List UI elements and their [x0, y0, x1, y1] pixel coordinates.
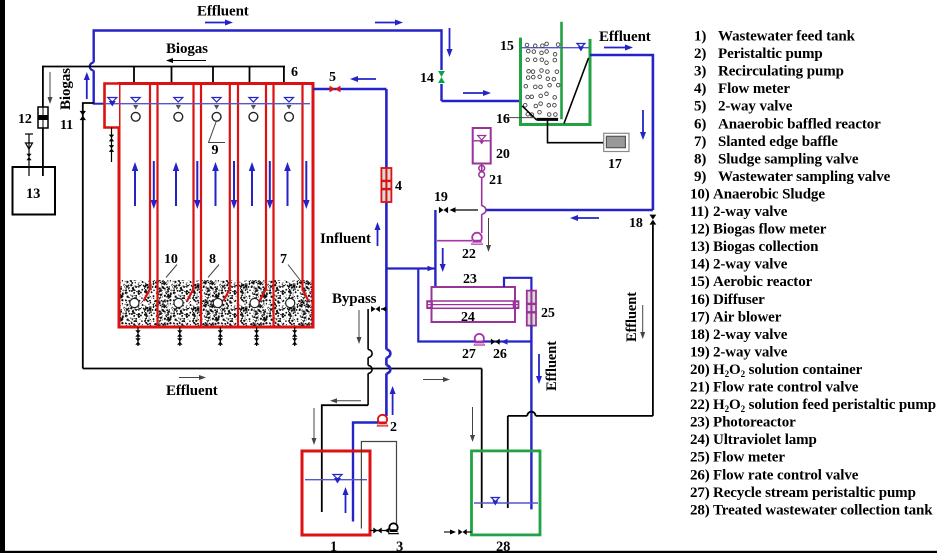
- H2O2 solution container 20: [473, 128, 491, 164]
- hopper diagonal: [522, 106, 536, 120]
- svg-text:9: 9: [212, 143, 219, 158]
- flow arrow down (beside pump 22): [488, 218, 490, 245]
- sludge sampling valve 4: [256, 327, 258, 346]
- svg-text:10: 10: [164, 252, 178, 267]
- svg-text:Slanted edge baffle: Slanted edge baffle: [718, 134, 838, 150]
- flow arrow down (biogas left): [49, 72, 51, 97]
- svg-text:1): 1): [694, 29, 706, 45]
- wire ABR inlet from valve 5: [313, 88, 386, 90]
- svg-text:28: 28: [496, 539, 510, 553]
- svg-text:Treated wastewater collection: Treated wastewater collection tank: [713, 502, 933, 518]
- wire diffuser to blower: [548, 121, 604, 143]
- flow arrow down (right): [642, 305, 644, 332]
- slanted edge baffle 4: [260, 84, 267, 302]
- flow arrow right (to photoreactor): [420, 268, 428, 270]
- svg-text:25): 25): [690, 450, 710, 466]
- svg-text:11: 11: [60, 118, 73, 133]
- level mark compartment 4: [249, 98, 258, 103]
- influent level mark (inlet box): [108, 98, 117, 103]
- flow arrow up (ABR effluent): [86, 80, 88, 99]
- downflow arrow compartment 4: [269, 161, 271, 200]
- downflow arrow compartment 5: [305, 161, 307, 200]
- flow rate control valve 21: [479, 165, 485, 171]
- svg-text:14): 14): [690, 257, 710, 273]
- flow arrow right (into aerobic): [463, 92, 483, 94]
- aerobic level mark: [577, 44, 585, 48]
- anaerobic baffled reactor 6 body: [119, 84, 313, 328]
- recirculating pump 3: [389, 523, 397, 531]
- tank 1 water line: [305, 479, 367, 481]
- pump 3 suction valve: [370, 530, 388, 532]
- svg-text:Flow meter: Flow meter: [713, 450, 785, 466]
- wire valve19 drop to photoreactor: [434, 210, 436, 287]
- flow arrow up (tank 1): [345, 495, 347, 513]
- svg-text:Wastewater feed tank: Wastewater feed tank: [718, 29, 856, 45]
- svg-text:12: 12: [18, 112, 32, 127]
- level mark compartment 2: [174, 98, 183, 103]
- wastewater sampling valve circle 4: [249, 112, 258, 121]
- valve 19 2-way: [439, 207, 444, 213]
- flow rate control valve 26: [491, 339, 495, 345]
- svg-text:3): 3): [694, 64, 706, 80]
- svg-text:22: 22: [462, 247, 476, 262]
- flow arrow left (return): [578, 217, 599, 219]
- svg-text:2: 2: [390, 420, 397, 435]
- valve 18 2-way: [650, 215, 657, 220]
- ABR divider wall 4: [272, 84, 274, 328]
- svg-text:Effluent: Effluent: [166, 383, 218, 399]
- svg-text:20: 20: [496, 147, 510, 162]
- aerobic baffle: [560, 22, 563, 120]
- wire biogas line to meter 12: [42, 66, 44, 107]
- svg-text:Flow rate control valve: Flow rate control valve: [713, 380, 859, 396]
- svg-text:13: 13: [26, 186, 40, 202]
- bypass valve: [371, 306, 375, 312]
- flow meter 4: [381, 168, 391, 202]
- label 7 leader: [288, 265, 300, 281]
- wire top effluent header: [93, 29, 442, 32]
- flow arrow left (biogas): [173, 60, 206, 62]
- aeration bubbles: [525, 43, 529, 47]
- svg-text:Effluent: Effluent: [624, 292, 640, 342]
- wire bypass tee: [381, 308, 386, 310]
- wire effluent riser from ABR: [92, 71, 94, 104]
- svg-text:2): 2): [694, 46, 706, 62]
- svg-text:19): 19): [690, 344, 710, 360]
- tank 28 water line: [474, 502, 538, 504]
- sampling arrow into box 13: [28, 134, 30, 176]
- wire valve 18 drop: [652, 225, 654, 416]
- svg-text:28): 28): [690, 502, 710, 518]
- sludge sampling valve 3: [219, 327, 221, 346]
- svg-text:2-way valve: 2-way valve: [713, 327, 788, 343]
- svg-text:2-way valve: 2-way valve: [713, 204, 788, 220]
- wire drain drop to tank 28: [481, 369, 483, 509]
- svg-text:2-way valve: 2-way valve: [713, 257, 788, 273]
- wire biogas drop 3: [212, 67, 214, 85]
- svg-text:6): 6): [694, 116, 706, 132]
- svg-text:26): 26): [690, 467, 710, 483]
- treated wastewater collection tank 28: [472, 451, 541, 535]
- wire influent riser: [385, 89, 388, 350]
- water line in ABR: [105, 103, 311, 105]
- border frame: [0, 0, 5, 553]
- svg-text:Aerobic reactor: Aerobic reactor: [713, 274, 813, 290]
- level mark compartment 5: [285, 98, 294, 103]
- wastewater sampling valve circle 2: [174, 112, 183, 121]
- svg-text:16): 16): [690, 292, 710, 308]
- svg-text:17: 17: [608, 157, 622, 172]
- wire pump 2 suction: [353, 423, 378, 522]
- flow arrow down (to tank 28): [538, 354, 540, 376]
- inlet box drain valve: [111, 128, 113, 163]
- svg-text:13): 13): [690, 239, 710, 255]
- tank 28 drain valve: [444, 531, 450, 533]
- svg-text:Biogas flow meter: Biogas flow meter: [713, 222, 827, 238]
- anaerobic sludge band 10: [121, 280, 312, 326]
- wastewater sampling valve circle 5: [285, 112, 294, 121]
- svg-text:4: 4: [395, 179, 402, 194]
- svg-text:7: 7: [280, 252, 287, 267]
- flow meter 25: [527, 291, 536, 326]
- ABR inlet box: [105, 84, 120, 128]
- diffuser 16: [537, 118, 559, 121]
- label 9 leader: [209, 122, 226, 143]
- svg-text:19: 19: [434, 190, 448, 205]
- wire biogas drop 5: [283, 67, 285, 85]
- svg-text:27): 27): [690, 485, 710, 501]
- svg-text:21: 21: [489, 173, 503, 188]
- flow arrow down (after corner): [449, 28, 451, 49]
- flow arrow right (top mid): [375, 22, 395, 24]
- wire recycle downleg: [418, 269, 474, 342]
- wire biogas drop 4: [249, 67, 251, 85]
- wire biogas drop 2: [171, 67, 173, 85]
- wire treated run to tank 28: [536, 415, 653, 417]
- tank 1 level mark: [333, 475, 342, 480]
- downflow arrow compartment 3: [233, 161, 235, 200]
- svg-text:10): 10): [690, 186, 710, 202]
- svg-text:2-way valve: 2-way valve: [718, 99, 793, 115]
- svg-text:Air blower: Air blower: [713, 309, 782, 325]
- wire photoreactor to meter 25: [504, 278, 531, 291]
- svg-text:Flow rate control valve: Flow rate control valve: [713, 467, 859, 483]
- svg-text:22): 22): [690, 397, 710, 413]
- upflow arrow compartment 2: [175, 171, 177, 206]
- svg-text:2-way valve: 2-way valve: [713, 344, 788, 360]
- svg-text:25: 25: [541, 306, 555, 321]
- flow arrow right (top left): [205, 22, 225, 24]
- svg-text:Anaerobic Sludge: Anaerobic Sludge: [713, 186, 825, 202]
- wastewater sampling valve circle 1: [131, 112, 140, 121]
- svg-text:3: 3: [396, 539, 403, 553]
- svg-text:14: 14: [420, 71, 434, 86]
- svg-text:24): 24): [690, 432, 710, 448]
- svg-text:12): 12): [690, 222, 710, 238]
- flow arrow down (into tank 1): [313, 408, 315, 438]
- flow arrow left (to ABR): [358, 78, 376, 80]
- svg-text:Bypass: Bypass: [332, 291, 377, 307]
- flow arrow down (into tank 28 left): [472, 407, 474, 435]
- wire aerobic return line: [486, 209, 653, 212]
- svg-text:Influent: Influent: [320, 231, 371, 247]
- svg-text:23): 23): [690, 415, 710, 431]
- svg-text:8: 8: [209, 252, 216, 267]
- flow arrow right (aerobic effluent): [604, 47, 625, 49]
- photoreactor 23: [432, 287, 516, 322]
- svg-text:15): 15): [690, 274, 710, 290]
- svg-text:18): 18): [690, 327, 710, 343]
- flow arrow down (aerobic effluent): [642, 110, 644, 132]
- flow arrow down (bypass): [358, 310, 360, 337]
- svg-text:Anaerobic baffled reactor: Anaerobic baffled reactor: [718, 116, 881, 132]
- svg-text:5: 5: [329, 70, 336, 85]
- valve 5 2-way: [330, 86, 336, 93]
- svg-text:Recycle stream peristaltic pum: Recycle stream peristaltic pump: [713, 485, 916, 501]
- svg-text:Diffuser: Diffuser: [713, 292, 765, 308]
- slanted edge baffle 1: [144, 84, 151, 302]
- flow arrow right (drain left): [179, 377, 199, 379]
- svg-text:11): 11): [690, 204, 709, 220]
- wire tee to photoreactor: [386, 267, 435, 269]
- flow arrow down (into photoreactor): [442, 248, 444, 264]
- valve 14 2-way: [439, 70, 445, 84]
- downflow arrow compartment 2: [196, 161, 198, 200]
- wire recycle return: [474, 340, 531, 342]
- wire effluent drop to valve 14: [440, 29, 442, 101]
- svg-text:Effluent: Effluent: [197, 4, 249, 20]
- svg-text:Photoreactor: Photoreactor: [713, 415, 796, 431]
- wire thin segment valve19: [452, 209, 478, 211]
- aerobic water line: [522, 47, 589, 49]
- svg-text:Flow meter: Flow meter: [718, 81, 790, 97]
- svg-text:8): 8): [694, 151, 706, 167]
- svg-text:26: 26: [493, 347, 507, 362]
- biogas flow meter 12: [38, 107, 48, 128]
- svg-text:7): 7): [694, 134, 706, 150]
- wire biogas drop 1: [133, 67, 135, 85]
- svg-text:27: 27: [462, 347, 476, 362]
- svg-text:4): 4): [694, 81, 706, 97]
- svg-text:1: 1: [330, 539, 337, 553]
- flow arrow right (drain mid): [423, 379, 443, 381]
- sludge circles: [130, 298, 139, 307]
- svg-text:16: 16: [496, 112, 510, 127]
- wire recycle to tank 1: [322, 405, 368, 512]
- upflow arrow compartment 4: [251, 171, 253, 206]
- slanted edge baffle 2: [187, 84, 194, 302]
- svg-text:Recirculating pump: Recirculating pump: [718, 64, 844, 80]
- sludge sampling valve 2: [179, 327, 181, 346]
- svg-text:Wastewater sampling valve: Wastewater sampling valve: [718, 169, 891, 185]
- valve 11 2-way: [80, 111, 86, 116]
- H2O2 peristaltic pump 22: [472, 233, 482, 243]
- wire drain elbow: [83, 103, 94, 369]
- flow arrow up (influent): [377, 230, 379, 246]
- wire bottom drain run: [83, 368, 482, 370]
- svg-text:20): 20): [690, 362, 710, 378]
- ultraviolet lamp 24: [427, 301, 519, 308]
- wastewater sampling valve circle 3: [212, 112, 221, 121]
- wastewater feed tank 1: [302, 451, 370, 535]
- upflow arrow compartment 3: [215, 171, 217, 206]
- svg-text:Biogas collection: Biogas collection: [713, 239, 819, 255]
- label 8 leader: [208, 265, 219, 278]
- wire pump 22 discharge: [437, 240, 472, 242]
- aerobic reactor 15 walls: [521, 38, 591, 125]
- wire bypass drop: [367, 309, 369, 350]
- svg-text:23: 23: [463, 272, 477, 287]
- air blower 17: [604, 133, 629, 151]
- wire H2O2 feed line: [481, 164, 483, 172]
- wire influent riser hops: [386, 350, 390, 358]
- biogas collection box 13: [13, 167, 56, 215]
- svg-text:21): 21): [690, 380, 710, 396]
- wire aerobic effluent: [590, 55, 653, 210]
- wire meter 25 down: [530, 326, 532, 510]
- svg-text:6: 6: [291, 65, 298, 80]
- upflow arrow compartment 1: [134, 171, 136, 206]
- svg-text:17): 17): [690, 309, 710, 325]
- svg-text:15: 15: [500, 39, 514, 54]
- tank 28 level mark: [491, 498, 499, 502]
- wire meter 12 to box 13: [42, 128, 44, 176]
- recirc loop pipe: [361, 442, 396, 529]
- label 16 leader: [505, 117, 535, 119]
- svg-text:24: 24: [461, 310, 475, 325]
- wire biogas header: [43, 66, 285, 68]
- svg-text:Peristaltic pump: Peristaltic pump: [718, 46, 823, 62]
- sludge sampling valve 1: [137, 327, 139, 346]
- ABR divider wall 2: [200, 84, 202, 328]
- slanted edge baffle 5: [303, 84, 309, 302]
- label 10 leader: [166, 265, 177, 278]
- svg-text:Biogas: Biogas: [166, 41, 208, 57]
- svg-text:5): 5): [694, 99, 706, 115]
- flow arrow left (recycle): [337, 400, 361, 402]
- slanted edge baffle 3: [223, 84, 230, 302]
- upflow arrow compartment 5: [287, 171, 289, 206]
- svg-text:Biogas: Biogas: [58, 68, 74, 110]
- clarifier slanted baffle: [564, 58, 589, 124]
- svg-text:18: 18: [629, 216, 643, 231]
- wire feed to aerobic reactor: [442, 100, 522, 103]
- svg-text:H2O2 solution feed peristaltic: H2O2 solution feed peristaltic pump: [713, 397, 936, 414]
- svg-text:Ultraviolet lamp: Ultraviolet lamp: [713, 432, 817, 448]
- level mark compartment 1: [131, 98, 140, 103]
- svg-text:Effluent: Effluent: [544, 341, 560, 391]
- svg-text:9): 9): [694, 169, 706, 185]
- ABR divider wall 3: [237, 84, 239, 328]
- recycle pump 27: [475, 334, 484, 343]
- svg-text:Sludge sampling valve: Sludge sampling valve: [718, 151, 859, 167]
- sludge sampling valve 5: [294, 327, 296, 346]
- downflow arrow compartment 1: [153, 161, 155, 200]
- wire inlet connector: [93, 103, 107, 105]
- svg-text:H2O2 solution container: H2O2 solution container: [713, 362, 863, 379]
- svg-text:Effluent: Effluent: [599, 29, 651, 45]
- peristaltic pump 2: [378, 415, 387, 424]
- flow arrow up (above pump 2): [392, 394, 394, 415]
- level mark compartment 3: [212, 98, 221, 103]
- ABR divider wall 1: [156, 84, 158, 328]
